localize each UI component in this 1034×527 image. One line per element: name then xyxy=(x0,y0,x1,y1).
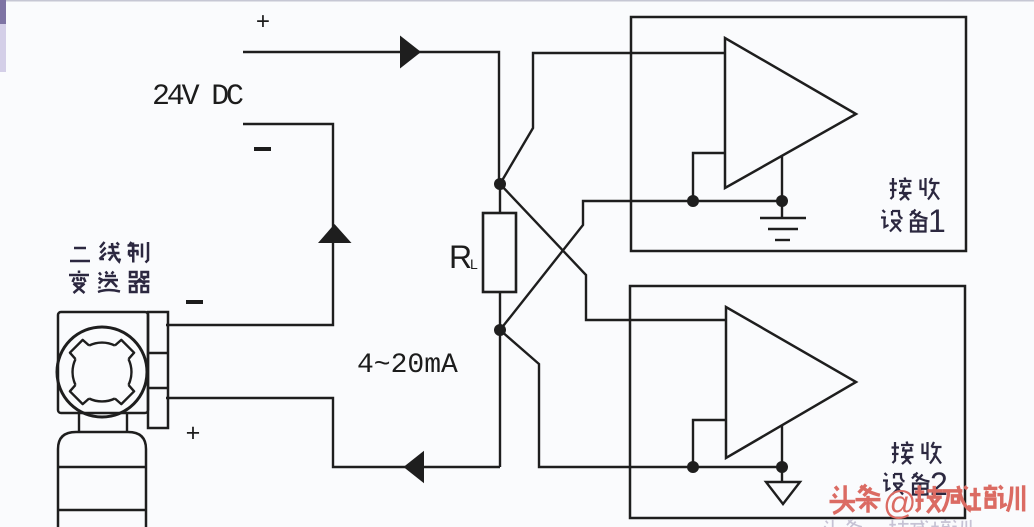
op-amp U2 xyxy=(726,307,856,458)
ground 1 (earth) xyxy=(760,217,806,219)
arrow right on top wire xyxy=(400,36,421,69)
label - (transmitter) xyxy=(186,300,203,304)
node U2 inverting xyxy=(687,461,699,473)
node U1 inverting xyxy=(687,195,699,207)
U2 output stub xyxy=(781,425,783,482)
transmitter neck xyxy=(78,414,80,432)
node A xyxy=(494,178,506,190)
node U1 ground xyxy=(776,195,788,207)
label 变送器 xyxy=(69,271,89,294)
svg-text:24V DC: 24V DC xyxy=(152,80,243,114)
node B xyxy=(494,324,506,336)
transmitter terminal block xyxy=(148,312,168,428)
watermark ghost bottom xyxy=(822,519,971,527)
transmitter head square xyxy=(58,312,148,413)
U2 feedback wire xyxy=(693,420,726,467)
svg-text:4~20mA: 4~20mA xyxy=(357,350,458,381)
wire: bottom return to transmitter + xyxy=(166,398,500,467)
wire: node B to receiver1 - input xyxy=(500,201,782,330)
transmitter inner rosette xyxy=(70,340,134,404)
wire: node A to receiver2 + input xyxy=(500,184,726,320)
transmitter body capsule xyxy=(58,432,146,527)
wire: -24V feed xyxy=(166,124,333,325)
svg-text:@: @ xyxy=(883,484,917,521)
U1 output stub to ground xyxy=(781,156,783,218)
arrow up on -24V riser xyxy=(318,224,352,243)
transmitter head circle xyxy=(57,327,147,417)
wire: node A to receiver1 + input xyxy=(500,53,725,184)
svg-text:L: L xyxy=(470,256,478,272)
resistor RL body xyxy=(483,213,516,292)
svg-text:+: + xyxy=(256,10,270,37)
box receiver 1 xyxy=(631,17,966,251)
label 接收 (1) xyxy=(890,178,912,201)
U1 feedback wire xyxy=(693,153,725,201)
watermark 头条@技成培训 xyxy=(830,485,1024,514)
wire: node B down to return xyxy=(499,330,501,467)
label 设备 (2) xyxy=(883,473,905,495)
label 接收 (2) xyxy=(892,442,914,465)
arrow left on return wire xyxy=(404,451,425,484)
wire: +24V top feed xyxy=(243,52,499,184)
ground 2 (chassis triangle) xyxy=(766,482,800,504)
wire: resistor top lead xyxy=(499,184,501,214)
op-amp U1 xyxy=(725,38,856,188)
svg-text:R: R xyxy=(449,239,472,275)
label 二线制 xyxy=(70,248,90,261)
svg-text:1: 1 xyxy=(928,203,946,239)
box receiver 2 xyxy=(630,286,965,518)
label - (supply) xyxy=(254,147,271,151)
svg-text:+: + xyxy=(185,420,200,449)
wire: node B to receiver2 - input xyxy=(500,330,782,467)
top edge artifact line xyxy=(0,0,1034,2)
top-left corner dark blob xyxy=(0,0,6,24)
left edge lavender strip xyxy=(0,0,6,72)
label 设备 (1) xyxy=(881,210,903,232)
node U2 ground xyxy=(776,461,788,473)
wire: resistor bottom lead xyxy=(499,292,501,330)
